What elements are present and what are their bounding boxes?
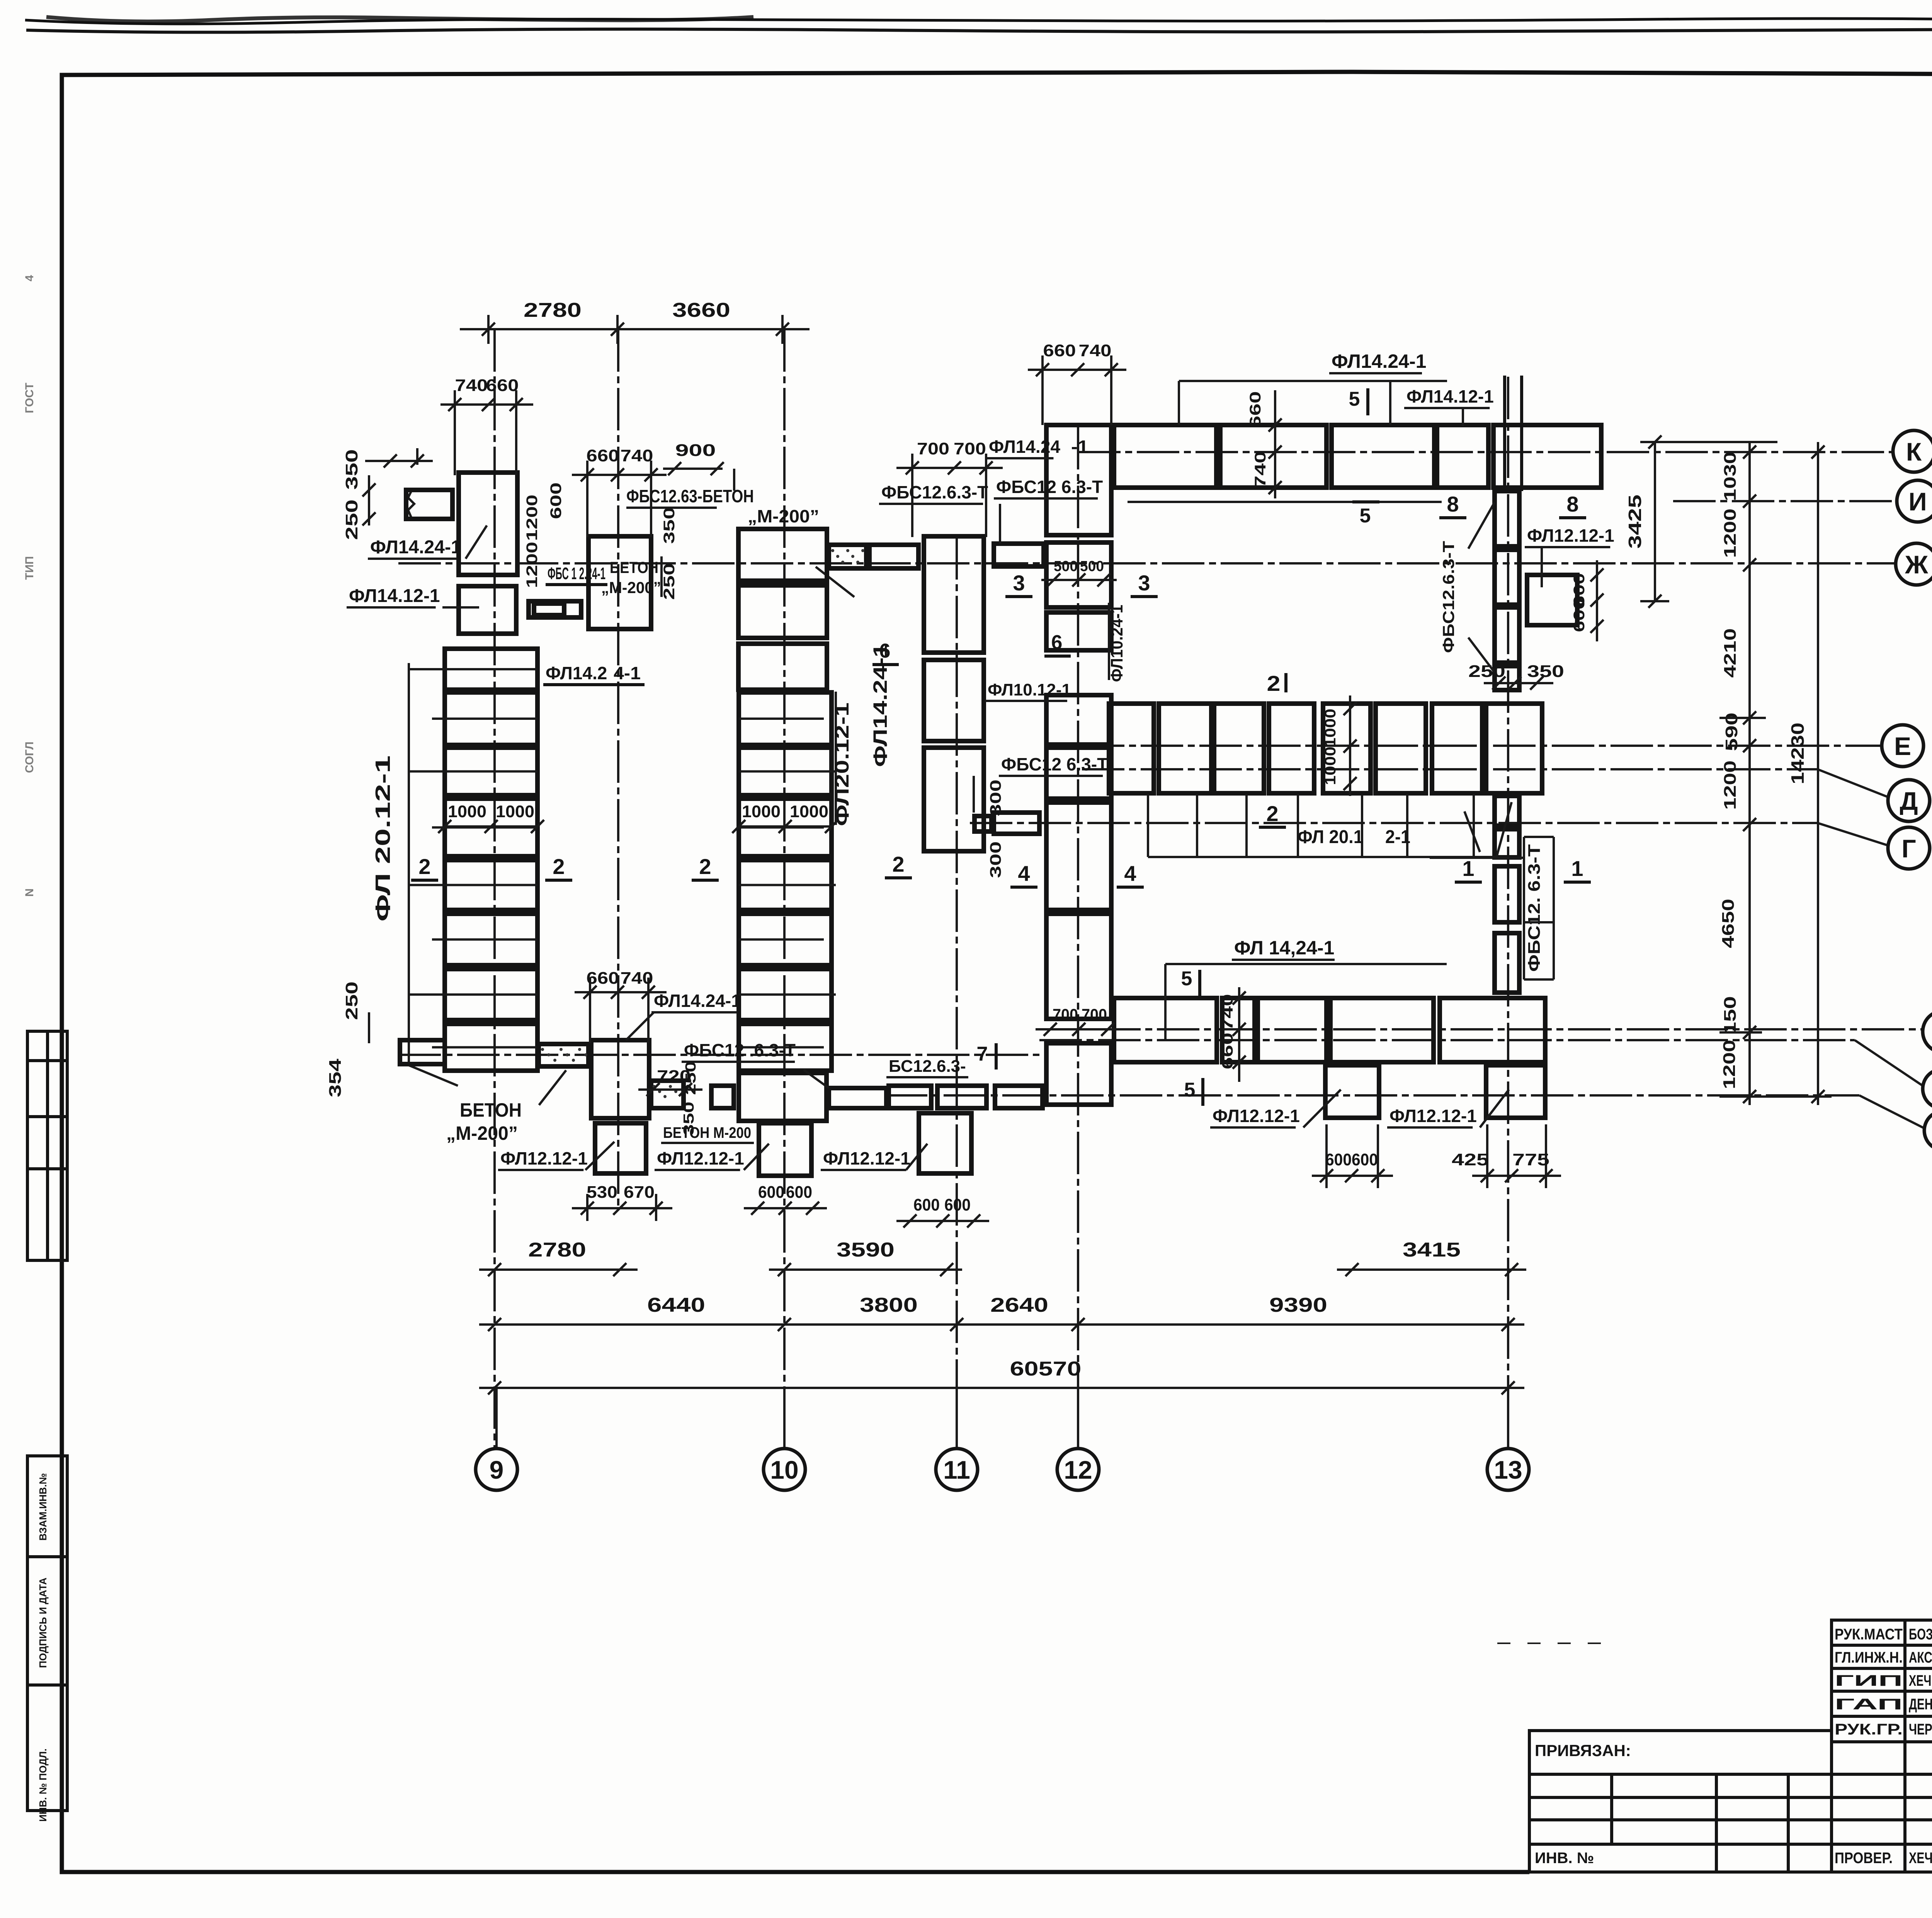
left margin small table	[27, 1031, 67, 1260]
svg-text:3425: 3425	[1625, 495, 1645, 549]
svg-text:2-1: 2-1	[1385, 827, 1410, 847]
svg-text:600: 600	[758, 1183, 784, 1202]
svg-text:530: 530	[587, 1183, 617, 1202]
svg-text:6: 6	[1051, 631, 1063, 654]
svg-text:ФЛ 14,24-1: ФЛ 14,24-1	[1234, 937, 1334, 959]
svg-text:250: 250	[661, 563, 678, 600]
svg-text:3415: 3415	[1403, 1239, 1461, 1261]
axis Е line	[1082, 745, 1881, 747]
svg-text:2: 2	[1267, 671, 1281, 695]
svg-text:ФБС12. 6.3-Т: ФБС12. 6.3-Т	[1525, 844, 1544, 972]
svg-text:ФЛ10.12-1: ФЛ10.12-1	[988, 680, 1071, 699]
dim 660/740 intermediate bottom	[575, 991, 667, 993]
svg-text:660: 660	[587, 969, 619, 988]
svg-text:ФЛ14.24-1: ФЛ14.24-1	[654, 991, 741, 1011]
bottom dim 2780/3590/3415	[479, 1268, 638, 1271]
dim 700/700 over axis 11	[896, 467, 1003, 469]
svg-text:7: 7	[977, 1043, 988, 1065]
svg-text:12: 12	[1064, 1456, 1092, 1484]
svg-text:РУК.МАСТ: РУК.МАСТ	[1835, 1626, 1903, 1643]
foundation pad ФЛ20.12-1 axis 9 #3	[445, 748, 537, 795]
foundation pad ФЛ20.12-1 axis 9 #4	[445, 799, 537, 856]
svg-text:3660: 3660	[672, 299, 730, 321]
foundation pad axis 11 #1	[924, 536, 984, 653]
bracket line row В label	[1165, 963, 1447, 965]
svg-text:ФБС12 6.3-Т: ФБС12 6.3-Т	[996, 477, 1103, 497]
svg-text:„М-200”: „М-200”	[748, 506, 819, 526]
svg-text:3800: 3800	[860, 1294, 918, 1316]
pad centre tick lines axis 10	[739, 718, 824, 720]
svg-text:1: 1	[1571, 856, 1583, 881]
axis 9 line	[493, 329, 496, 1449]
wall stub left of axis 9 bottom	[400, 1040, 445, 1064]
svg-text:ЧЕРНЕЦОВА: ЧЕРНЕЦОВА	[1909, 1721, 1932, 1738]
title block signature table	[1832, 1620, 1932, 1872]
foundation pad ФЛ14.24-1 row К #2	[1220, 425, 1327, 488]
svg-text:„М-200”: „М-200”	[446, 1122, 518, 1144]
svg-text:АКСЕНОВ: АКСЕНОВ	[1909, 1649, 1932, 1666]
axis circle 10	[764, 1449, 805, 1490]
foundation pad axis 10 top #3	[738, 644, 827, 690]
axis Б left segment	[398, 1054, 1039, 1056]
svg-text:2: 2	[892, 852, 904, 876]
svg-text:660: 660	[486, 376, 519, 395]
svg-text:ФЛ14.24-1: ФЛ14.24-1	[1332, 350, 1426, 372]
svg-text:600: 600	[1352, 1150, 1378, 1169]
svg-text:350: 350	[1527, 662, 1564, 681]
svg-text:ФЛ14.2: ФЛ14.2	[546, 663, 607, 683]
dim 600/600 axis 10	[744, 1207, 827, 1209]
small wall block pair	[529, 601, 581, 617]
svg-text:ФЛ14.24: ФЛ14.24	[989, 437, 1060, 457]
svg-text:1000: 1000	[1322, 746, 1339, 785]
svg-text:3: 3	[1013, 571, 1025, 595]
dim 1000/1000 row Е rotated	[1349, 695, 1351, 796]
foundation pad ФЛ14.24-1 row К #5	[1493, 425, 1601, 488]
svg-text:600: 600	[786, 1183, 812, 1202]
svg-text:775: 775	[1512, 1150, 1549, 1169]
axis К line	[1078, 451, 1892, 453]
axis circle В	[1923, 1011, 1932, 1053]
svg-text:250: 250	[1468, 662, 1505, 681]
svg-text:1200: 1200	[1721, 508, 1740, 558]
svg-text:1200: 1200	[524, 495, 541, 541]
svg-text:ФЛ20.12-1: ФЛ20.12-1	[831, 702, 853, 826]
foundation pad ФЛ20.12-1 row Е #3	[1214, 704, 1264, 793]
svg-text:660: 660	[1043, 341, 1076, 360]
svg-text:И: И	[1908, 487, 1927, 516]
dim 660/740 over axis 12	[1028, 369, 1126, 371]
dim 425/775 axis 13	[1472, 1175, 1561, 1177]
axis circle И	[1897, 480, 1932, 522]
dim 500/500 axis 12	[1041, 579, 1117, 581]
svg-text:ФЛ14.12-1: ФЛ14.12-1	[1406, 386, 1494, 406]
svg-text:ФЛ12.12-1: ФЛ12.12-1	[1389, 1106, 1477, 1126]
svg-text:4650: 4650	[1719, 899, 1738, 948]
svg-text:ГАП: ГАП	[1835, 1696, 1903, 1713]
svg-text:1200: 1200	[1721, 760, 1740, 810]
bracket line axis 9 label	[408, 663, 410, 1065]
svg-text:60570: 60570	[1010, 1358, 1082, 1380]
wall block ФБС12.6.3-Т axis 13 upper #1	[1495, 491, 1519, 546]
svg-text:354: 354	[326, 1058, 345, 1097]
svg-text:ХЕЧИНАШВИЛИ: ХЕЧИНАШВИЛИ	[1909, 1850, 1932, 1867]
svg-text:Д: Д	[1900, 787, 1918, 815]
wall stub left of axis 9 top	[406, 490, 452, 519]
svg-text:ПРОВЕР.: ПРОВЕР.	[1835, 1850, 1893, 1867]
svg-text:ФЛ12.12-1: ФЛ12.12-1	[500, 1148, 588, 1168]
foundation pad ФЛ12.12-1 under row В #1	[1325, 1065, 1379, 1118]
wall block ФБС12.6.3-Т axis 13 lower #3	[1495, 866, 1519, 922]
svg-text:2780: 2780	[524, 299, 582, 321]
svg-text:5: 5	[1349, 388, 1360, 410]
svg-text:ФБС12.6.3-Т: ФБС12.6.3-Т	[881, 482, 988, 502]
svg-text:600: 600	[944, 1195, 971, 1214]
foundation pad axis 12 #7	[1046, 914, 1111, 1019]
svg-text:ФЛ12.12-1: ФЛ12.12-1	[1527, 525, 1614, 546]
foundation pad ФЛ12.12-1 near Ж	[1527, 575, 1577, 625]
foundation pad axis 12 #6	[1046, 803, 1111, 910]
axis Д line	[1082, 768, 1818, 770]
svg-text:740: 740	[621, 446, 653, 465]
wall block ФБС12.6.3-Т axis 13 upper #2	[1495, 550, 1519, 605]
axis circle Б	[1923, 1069, 1932, 1109]
axis circle 11	[936, 1449, 978, 1490]
foundation pad ФБС12.24-1	[588, 536, 651, 629]
svg-text:ГОСТ: ГОСТ	[23, 383, 36, 413]
svg-text:РУК.ГР.: РУК.ГР.	[1835, 1721, 1903, 1738]
foundation pad ФЛ20.12-1 axis 9 #8	[445, 1024, 537, 1071]
bracket line row Е label	[1148, 856, 1497, 858]
svg-text:ФЛ12.12-1: ФЛ12.12-1	[823, 1148, 910, 1168]
axis Б line	[1039, 1039, 1855, 1041]
svg-text:БС12.6.3-: БС12.6.3-	[889, 1057, 966, 1076]
svg-text:ТИП: ТИП	[23, 556, 36, 580]
foundation pad ФЛ20.12-1 row Е #4	[1269, 704, 1314, 793]
svg-text:БОЗИНА: БОЗИНА	[1909, 1626, 1932, 1643]
foundation pad ФЛ20.12-1 axis 10 #5	[739, 914, 832, 965]
foundation pad ФЛ14.24-1 axis 9 top	[459, 473, 517, 575]
svg-text:660: 660	[1247, 391, 1264, 428]
svg-text:2640: 2640	[990, 1294, 1048, 1316]
foundation pad axis 12 #4	[1046, 695, 1111, 745]
axis circle Е	[1882, 725, 1923, 767]
foundation pad ФЛ20.12-1 row Е #8	[1486, 704, 1542, 793]
axis 13 line	[1507, 377, 1509, 1449]
wall block ФБС12.6.3-Т axis 13 lower #1	[1495, 796, 1519, 826]
svg-text:ПРИВЯЗАН:: ПРИВЯЗАН:	[1535, 1741, 1631, 1760]
svg-text:3: 3	[1138, 571, 1150, 595]
wall block ФБС12.6.3-Т axis 13 lower #2	[1495, 829, 1519, 857]
dim 660/740 row К rotated	[1274, 390, 1276, 498]
svg-text:4-1: 4-1	[614, 663, 641, 683]
svg-text:350: 350	[342, 449, 361, 490]
svg-text:740: 740	[455, 376, 488, 395]
svg-text:1000: 1000	[1322, 709, 1339, 747]
drawing frame	[62, 72, 1932, 1620]
foundation pad ФЛ14.12-1 axis 9	[459, 586, 516, 634]
dim 900	[663, 468, 723, 470]
svg-text:Е: Е	[1894, 732, 1911, 760]
svg-text:670: 670	[624, 1183, 655, 1202]
foundation pad ФЛ14.24-1 row В #3	[1258, 998, 1327, 1062]
svg-text:600: 600	[913, 1195, 940, 1214]
pad centre tick lines axis 9	[409, 668, 537, 670]
svg-text:1000: 1000	[448, 802, 486, 821]
svg-text:600: 600	[1571, 598, 1588, 632]
svg-text:ФЛ10.24-1: ФЛ10.24-1	[1107, 605, 1126, 682]
concrete wall block БЕТОН (dotted) on Ж	[829, 545, 866, 568]
svg-text:1000: 1000	[742, 802, 781, 821]
foundation pad ФЛ20.12-1 row Е #2	[1159, 704, 1211, 793]
svg-text:6: 6	[879, 640, 891, 662]
svg-text:700: 700	[917, 439, 949, 458]
bottom dim 6440/3800/2640/9390	[479, 1323, 1524, 1326]
foundation pad ФЛ14.24-1 row К #1	[1114, 425, 1216, 488]
svg-text:425: 425	[1452, 1150, 1489, 1169]
dim 700/700 axis 12 bottom	[1036, 1028, 1122, 1030]
wall block ФБС12.6.3-Т axis 13 upper #3	[1495, 607, 1519, 663]
svg-text:150: 150	[1721, 996, 1740, 1035]
foundation pad ФЛ20.12-1 axis 10 #7	[739, 1024, 832, 1071]
svg-text:„М-200”: „М-200”	[601, 578, 661, 597]
intermediate axis line	[617, 329, 619, 1207]
svg-text:740: 740	[1079, 341, 1112, 360]
foundation pad ФЛ20.12-1 row Е #7	[1432, 704, 1482, 793]
dim 660/740 row В rotated	[1238, 987, 1240, 1082]
svg-text:N: N	[23, 888, 36, 897]
foundation pad ФЛ20.12-1 axis 10 #1	[739, 692, 832, 745]
svg-text:ГИП: ГИП	[1835, 1672, 1903, 1689]
foundation pad ФЛ14.24-1 row К #3	[1332, 425, 1434, 488]
axis 12 line	[1077, 427, 1079, 1449]
foundation pad ФЛ20.12-1 axis 9 #7	[445, 969, 537, 1020]
svg-text:2: 2	[553, 854, 565, 879]
foundation pad ФЛ20.12-1 axis 10 #6	[739, 969, 832, 1020]
svg-text:-1: -1	[1071, 437, 1088, 457]
svg-text:250: 250	[683, 1061, 699, 1095]
dim 1000/1000 axis 10	[739, 825, 832, 828]
svg-text:ВЗАМ.ИНВ.№: ВЗАМ.ИНВ.№	[37, 1473, 49, 1541]
svg-text:740: 740	[1219, 994, 1236, 1031]
foundation pad row А left	[739, 1073, 827, 1121]
wall lines axis 13 through row К	[1503, 376, 1506, 491]
svg-text:4210: 4210	[1721, 628, 1740, 678]
svg-text:ФБС 1 2.24-1: ФБС 1 2.24-1	[548, 564, 605, 583]
foundation pad ФЛ20.12-1 axis 9 #1	[445, 649, 537, 690]
axis circle Ж	[1896, 543, 1932, 585]
foundation pad axis 12 #3	[1046, 612, 1111, 650]
svg-text:ФЛ14.24-1: ФЛ14.24-1	[370, 537, 461, 558]
svg-text:ГЛ.ИНЖ.Н.: ГЛ.ИНЖ.Н.	[1835, 1649, 1903, 1666]
svg-text:8: 8	[1566, 492, 1578, 516]
svg-text:3590: 3590	[837, 1239, 895, 1261]
svg-text:740: 740	[621, 969, 653, 988]
foundation pad axis 12 #2	[1046, 542, 1111, 607]
svg-text:Ж: Ж	[1905, 550, 1928, 579]
wall block ФБС12.6.3-Т on Ж #2	[994, 544, 1044, 566]
foundation pad ФЛ20.12-1 row Е #1	[1109, 704, 1154, 793]
svg-text:300: 300	[987, 780, 1004, 816]
svg-text:ИНВ. №: ИНВ. №	[1535, 1850, 1594, 1867]
svg-text:300: 300	[987, 842, 1004, 878]
axis 11 line	[956, 537, 958, 1449]
dim 660/740 over intermediate	[572, 474, 667, 476]
svg-text:4: 4	[23, 275, 36, 281]
svg-text:600: 600	[548, 483, 565, 519]
svg-text:ФЛ 20.1: ФЛ 20.1	[1298, 827, 1363, 847]
foundation pad ФЛ14.24-1 row В #5	[1440, 998, 1545, 1062]
svg-text:БЕТОН: БЕТОН	[460, 1099, 522, 1121]
foundation pad axis 10 top #1	[738, 529, 827, 581]
left margin stamp column	[27, 1456, 67, 1811]
dim 530/670	[572, 1207, 672, 1209]
wall blocks row А left	[651, 1081, 684, 1108]
svg-text:14230: 14230	[1787, 723, 1808, 784]
foundation pad ФЛ20.12-1 axis 10 #3	[739, 799, 832, 856]
break zigzag on top-left stub	[408, 490, 414, 519]
dim 3425 rotated	[1654, 442, 1656, 601]
foundation pad axis 12 #1	[1046, 425, 1111, 535]
svg-text:ФБС12 6.3-Т: ФБС12 6.3-Т	[1001, 754, 1108, 774]
svg-text:13: 13	[1494, 1456, 1522, 1484]
foundation pad ФЛ20.12-1 axis 9 #2	[445, 692, 537, 745]
axis Г line	[970, 822, 1818, 824]
wall block ФБС12.6.3-Т on Ж #1	[869, 545, 918, 568]
svg-text:ИНВ. № ПОДЛ.: ИНВ. № ПОДЛ.	[37, 1748, 49, 1821]
axis circle Д	[1888, 780, 1930, 821]
svg-text:СОГЛ: СОГЛ	[23, 741, 36, 773]
bottom dim 60570	[479, 1387, 1524, 1389]
svg-text:ФЛ12.12-1: ФЛ12.12-1	[657, 1148, 744, 1168]
svg-text:2: 2	[699, 854, 711, 879]
svg-text:5: 5	[1181, 968, 1192, 990]
foundation pad ФЛ12.12-1 axis 10 bottom	[759, 1123, 811, 1176]
svg-text:ХЕЧИНАШВИЛИ: ХЕЧИНАШВИЛИ	[1909, 1672, 1932, 1689]
axis В line	[1039, 1028, 1923, 1030]
axis circle 13	[1487, 1449, 1529, 1490]
svg-text:1000: 1000	[790, 802, 828, 821]
svg-text:600: 600	[1325, 1150, 1352, 1169]
axis circle Г	[1888, 827, 1930, 869]
svg-text:БЕТОН М-200: БЕТОН М-200	[663, 1124, 751, 1141]
svg-text:660: 660	[587, 446, 619, 465]
axis Ж line	[398, 562, 1895, 565]
top dimension line 2780/3660	[460, 328, 810, 330]
foundation pad ФЛ14.24-1 intermediate bottom	[591, 1040, 649, 1118]
foundation pad ФЛ14.24-1 row В #2	[1222, 998, 1255, 1062]
dim 1000/1000 axis 9	[445, 825, 537, 828]
svg-text:500: 500	[1080, 558, 1104, 575]
svg-text:К: К	[1906, 437, 1922, 466]
wall block ФБС12.6.3-Т axis 13 upper #4	[1495, 666, 1519, 690]
svg-text:4: 4	[1018, 861, 1030, 886]
svg-text:1200: 1200	[524, 542, 541, 588]
svg-text:ФЛ12.12-1: ФЛ12.12-1	[1213, 1106, 1300, 1126]
svg-text:660: 660	[1219, 1033, 1236, 1070]
section line 5-5 under row К	[1128, 501, 1442, 503]
svg-text:ПОДПИСЬ И ДАТА: ПОДПИСЬ И ДАТА	[37, 1578, 49, 1668]
axis circle 9	[476, 1449, 517, 1490]
svg-text:5: 5	[1360, 505, 1371, 527]
wall block ФБС12.6.3-Т axis 13 lower #4	[1495, 933, 1519, 993]
foundation pad ФЛ12.12-1 axis 11 bottom	[919, 1113, 971, 1173]
svg-text:2780: 2780	[528, 1239, 586, 1261]
svg-text:1200: 1200	[1720, 1040, 1739, 1089]
foundation pad ФЛ20.12-1 axis 9 #6	[445, 914, 537, 965]
svg-text:БЕТОН: БЕТОН	[610, 558, 658, 576]
svg-text:1030: 1030	[1721, 452, 1740, 501]
svg-text:6440: 6440	[647, 1294, 705, 1316]
svg-text:700: 700	[1082, 1005, 1107, 1024]
extension stubs right	[1719, 717, 1766, 719]
foundation pad axis 11 #2	[924, 660, 984, 741]
svg-text:700: 700	[954, 439, 986, 458]
foundation pad ФЛ20.12-1 axis 10 #2	[739, 748, 832, 795]
svg-text:250: 250	[342, 981, 361, 1020]
svg-text:900: 900	[675, 441, 716, 460]
faint dashed line left of signature table	[1497, 1643, 1611, 1644]
concrete wall block on Б left (dotted)	[539, 1044, 588, 1066]
svg-text:8: 8	[1447, 492, 1459, 516]
axis circle 12	[1057, 1449, 1099, 1490]
foundation pad ФЛ20.12-1 axis 9 #5	[445, 860, 537, 910]
svg-text:11: 11	[943, 1456, 970, 1484]
right dim chain line	[1748, 442, 1751, 1105]
dim 600/600 row В right	[1312, 1175, 1393, 1177]
svg-text:500: 500	[1054, 558, 1078, 575]
dim 350/250 left of axis 9	[416, 448, 418, 465]
svg-text:ФЛ14.12-1: ФЛ14.12-1	[349, 586, 440, 606]
foundation pad axis 11 #3	[924, 748, 984, 851]
foundation pad axis 12 #8	[1046, 1043, 1111, 1105]
axis line solid stubs to circles	[495, 1388, 498, 1449]
dim 740/660 over axis 9	[440, 403, 533, 406]
foundation pad ФЛ20.12-1 row Е #5	[1323, 704, 1371, 793]
wall blocks on Г axis	[975, 816, 992, 831]
привязан table	[1529, 1731, 1832, 1872]
axis 10 line	[783, 329, 786, 1449]
svg-text:ДЕНИСОВА: ДЕНИСОВА	[1909, 1696, 1932, 1713]
foundation pad ФЛ12.12-1 intermediate	[595, 1123, 646, 1173]
svg-text:1000: 1000	[496, 802, 534, 821]
leader diagonal near М-200 pad	[816, 567, 854, 597]
svg-text:ФЛ 20.12-1: ФЛ 20.12-1	[371, 755, 395, 922]
svg-text:4: 4	[1124, 861, 1136, 886]
svg-text:2: 2	[1266, 801, 1278, 826]
foundation pad axis 10 top #2	[738, 585, 827, 638]
foundation pad ФЛ20.12-1 axis 10 #4	[739, 860, 832, 910]
svg-text:ФБС12.6.3-Т: ФБС12.6.3-Т	[1439, 541, 1458, 653]
axis И line	[1673, 500, 1896, 502]
svg-text:10: 10	[770, 1456, 798, 1484]
right total dim line 14230	[1817, 442, 1819, 1105]
foundation pad ФЛ12.12-1 axis 13 bottom	[1486, 1065, 1545, 1118]
svg-text:5: 5	[1184, 1079, 1196, 1101]
svg-text:250: 250	[342, 500, 361, 540]
foundation pad ФЛ14.24-1 row В #4	[1330, 998, 1434, 1062]
foundation pad ФЛ14.24-1 row К #4	[1437, 425, 1488, 488]
bracket line axis 10 label	[835, 692, 837, 825]
axis А line	[885, 1094, 1859, 1097]
foundation pad ФЛ20.12-1 row Е #6	[1376, 704, 1426, 793]
svg-text:9: 9	[490, 1456, 504, 1484]
dim 600/600 near Ж	[1596, 560, 1598, 641]
svg-text:740: 740	[1252, 451, 1269, 488]
svg-text:700: 700	[1053, 1005, 1078, 1024]
svg-text:2: 2	[418, 854, 430, 879]
svg-text:9390: 9390	[1269, 1294, 1327, 1316]
